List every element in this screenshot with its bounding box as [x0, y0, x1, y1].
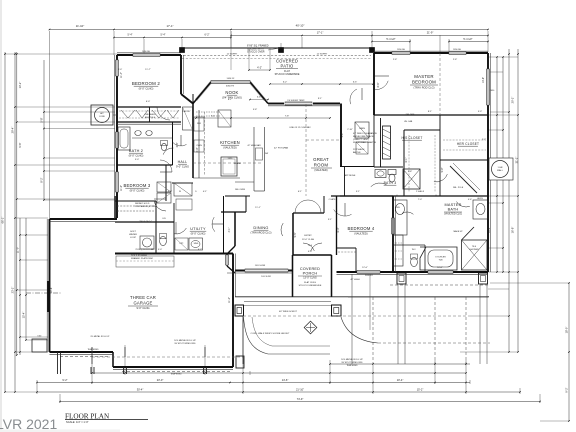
rear patio post extension lines	[351, 274, 353, 364]
svg-text:13'-0" CLNG: 13'-0" CLNG	[302, 239, 315, 241]
left vanity	[393, 200, 407, 235]
svg-text:6'-5": 6'-5"	[353, 82, 358, 84]
water heater on platform	[140, 236, 154, 249]
svg-text:42" HIGH: 42" HIGH	[350, 279, 360, 281]
svg-text:DBL DRS: DBL DRS	[406, 114, 415, 116]
svg-text:1 HR: 1 HR	[498, 167, 503, 169]
svg-text:23'-2": 23'-2"	[11, 287, 15, 294]
laundry closet boxes	[157, 182, 171, 192]
svg-text:7'-8": 7'-8"	[285, 116, 290, 118]
svg-text:TEMPERED: TEMPERED	[346, 365, 358, 367]
svg-text:ONE SHELF: ONE SHELF	[144, 114, 156, 116]
svg-text:13'-2": 13'-2"	[18, 82, 22, 89]
master suite interior block	[403, 130, 405, 196]
svg-text:HALL: HALL	[178, 160, 188, 164]
svg-text:6'-0": 6'-0"	[146, 101, 151, 103]
right dimension lines	[496, 57, 498, 272]
svg-text:31'-2": 31'-2"	[515, 157, 519, 164]
svg-text:(DIRECT VENT): (DIRECT VENT)	[353, 139, 369, 141]
svg-text:LINE OF 12 CLNG ABV: LINE OF 12 CLNG ABV	[289, 126, 311, 129]
svg-text:BATH 2: BATH 2	[129, 149, 143, 153]
svg-text:10'-4": 10'-4"	[397, 378, 404, 382]
svg-text:8'-1": 8'-1"	[228, 99, 233, 101]
svg-text:2650 SH: 2650 SH	[453, 49, 461, 51]
svg-text:TEMPERED: TEMPERED	[170, 374, 182, 376]
svg-text:DBL OVEN: DBL OVEN	[235, 189, 246, 191]
svg-text:4'-1": 4'-1"	[203, 191, 208, 193]
svg-text:3'-6": 3'-6"	[168, 191, 173, 193]
svg-text:5'X5': 5'X5'	[37, 336, 42, 338]
svg-text:(VAULTED): (VAULTED)	[223, 145, 236, 149]
bedroom2 block outline	[117, 54, 181, 56]
svg-text:8'0 METAL ROLL UP: 8'0 METAL ROLL UP	[91, 335, 110, 338]
garage door dashes	[60, 356, 110, 358]
svg-text:5'-0": 5'-0"	[158, 249, 163, 251]
exterior double-wall thin outlines	[374, 50, 488, 52]
svg-text:2 SHELF: 2 SHELF	[416, 191, 425, 193]
svg-text:11'-0": 11'-0"	[16, 247, 20, 253]
svg-text:18'-0": 18'-0"	[565, 327, 569, 334]
fireplace hatch	[383, 129, 391, 157]
svg-text:11'-4": 11'-4"	[120, 72, 123, 78]
svg-text:2'-2": 2'-2"	[482, 139, 487, 141]
patio soffit dashed	[176, 55, 371, 57]
svg-text:WATER: WATER	[129, 233, 137, 236]
svg-text:THREE CAR: THREE CAR	[130, 295, 156, 300]
bedroom3 closet	[115, 200, 156, 202]
master bath south wall	[393, 271, 488, 273]
svg-text:PANTRY: PANTRY	[183, 110, 192, 113]
svg-text:5'-0": 5'-0"	[135, 159, 140, 161]
svg-text:9'-0" CLNG: 9'-0" CLNG	[136, 306, 149, 310]
svg-text:13'-0" CLNG: 13'-0" CLNG	[303, 277, 317, 280]
svg-text:5'-8": 5'-8"	[253, 109, 258, 111]
svg-text:5050 SH: 5050 SH	[142, 51, 150, 53]
svg-text:6'-2": 6'-2"	[198, 249, 203, 251]
left dimension lines	[4, 52, 6, 392]
svg-text:16'-8": 16'-8"	[511, 227, 515, 234]
svg-text:2X10 @ 16 O.C. ABV: 2X10 @ 16 O.C. ABV	[135, 248, 155, 251]
svg-text:BEDROOM 2: BEDROOM 2	[132, 81, 161, 86]
svg-text:5030 XO: 5030 XO	[365, 275, 373, 277]
svg-text:5'-8": 5'-8"	[408, 171, 413, 173]
svg-text:16'0 METAL ROLL UP: 16'0 METAL ROLL UP	[341, 358, 363, 361]
bottom extension verticals	[36, 380, 38, 394]
svg-text:BEDROOM 4: BEDROOM 4	[348, 226, 375, 231]
svg-text:5'-4 1/2": 5'-4 1/2"	[463, 38, 472, 41]
kitchen dim line y118	[196, 117, 330, 119]
svg-text:3'-1": 3'-1"	[328, 219, 333, 221]
svg-text:5050 FX: 5050 FX	[227, 78, 235, 80]
svg-text:MASTER: MASTER	[444, 203, 461, 207]
svg-text:LINEN: LINEN	[359, 128, 365, 130]
svg-text:30'-4": 30'-4"	[137, 388, 144, 392]
svg-text:LOOP: LOOP	[130, 237, 137, 239]
svg-text:12' SOFFIT: 12' SOFFIT	[317, 54, 328, 56]
svg-text:11'-10": 11'-10"	[76, 24, 84, 28]
svg-text:METAL FIRE PLACE: METAL FIRE PLACE	[353, 135, 374, 138]
svg-text:16'0 X 8'0 HIGH: 16'0 X 8'0 HIGH	[131, 255, 147, 257]
covered patio roof line top	[182, 47, 374, 49]
svg-text:5'-4 1/2": 5'-4 1/2"	[386, 38, 395, 41]
svg-text:NOOK: NOOK	[225, 90, 238, 95]
svg-text:DBL. POLE: DBL. POLE	[453, 187, 464, 189]
svg-text:(9'-0" CLNG): (9'-0" CLNG)	[191, 231, 206, 235]
svg-text:9'0 SLIDER TEMP.: 9'0 SLIDER TEMP.	[287, 100, 305, 102]
svg-text:6'-1": 6'-1"	[405, 157, 408, 162]
svg-text:9'-6": 9'-6"	[18, 142, 22, 147]
svg-text:5'-8": 5'-8"	[40, 117, 44, 122]
svg-text:9'-1": 9'-1"	[318, 98, 323, 100]
pantry cabinet	[183, 107, 193, 130]
svg-text:ENTRY: ENTRY	[304, 235, 312, 237]
svg-text:9'-2": 9'-2"	[565, 387, 569, 392]
svg-text:4'-1": 4'-1"	[228, 227, 231, 232]
top dimension line overall	[50, 29, 489, 31]
svg-text:(TRAY ROD CLG): (TRAY ROD CLG)	[414, 86, 435, 90]
svg-text:TUB: TUB	[439, 260, 444, 262]
door arcs	[157, 107, 170, 120]
wc compartment	[393, 244, 425, 246]
svg-text:FRAMED PLATFORM: FRAMED PLATFORM	[131, 257, 153, 260]
svg-text:2'-10": 2'-10"	[347, 129, 353, 131]
svg-text:ABOVE: ABOVE	[353, 151, 361, 154]
svg-text:17'-1": 17'-1"	[166, 24, 173, 28]
kitchen upper cab dash	[204, 112, 206, 176]
svg-text:TILE: TILE	[308, 245, 313, 247]
svg-text:74'-9": 74'-9"	[297, 397, 304, 401]
svg-text:5'-4": 5'-4"	[161, 34, 166, 37]
linen tower	[393, 235, 403, 266]
svg-text:17'-1": 17'-1"	[317, 31, 324, 35]
patio inner dim line	[249, 69, 270, 71]
svg-text:2X6 @ 16 O.C.: 2X6 @ 16 O.C.	[139, 221, 153, 223]
svg-text:6'-2": 6'-2"	[283, 82, 288, 84]
bottom dimension lines	[92, 372, 466, 374]
his closet shelves	[408, 135, 410, 192]
svg-text:COND: COND	[99, 116, 105, 118]
svg-text:GARAGE: GARAGE	[133, 301, 152, 306]
svg-text:POST ABOVE (4 TYPE): POST ABOVE (4 TYPE)	[135, 205, 157, 208]
patio slab lines	[390, 284, 488, 286]
svg-text:LIN. CAB: LIN. CAB	[404, 120, 413, 123]
bath3	[374, 166, 403, 168]
svg-text:BATH 3: BATH 3	[384, 181, 397, 185]
svg-text:ROOM: ROOM	[314, 163, 329, 168]
svg-text:3'-0": 3'-0"	[118, 69, 123, 71]
extension verticals top	[49, 31, 51, 218]
svg-text:12' SOFFIT: 12' SOFFIT	[227, 54, 238, 56]
bedroom4	[336, 196, 338, 255]
svg-text:DINING: DINING	[253, 225, 268, 230]
svg-text:MAKE UP: MAKE UP	[453, 230, 463, 233]
garage platform dashed	[116, 256, 174, 267]
svg-text:PATIO: PATIO	[281, 64, 294, 69]
svg-text:8'-1": 8'-1"	[428, 111, 433, 113]
svg-text:CONC. WALK W/KEY SCORE LAYOUT: CONC. WALK W/KEY SCORE LAYOUT	[251, 332, 291, 335]
svg-text:11'-7": 11'-7"	[145, 69, 151, 71]
svg-text:7'-1": 7'-1"	[211, 116, 216, 118]
svg-text:15'-2": 15'-2"	[417, 388, 424, 392]
utility block	[115, 221, 174, 223]
garage	[49, 219, 51, 352]
great room east wall	[340, 104, 342, 167]
patio dim line y84	[270, 83, 373, 85]
third dim line left	[114, 37, 231, 39]
nook bay	[196, 81, 212, 100]
side stoop	[32, 339, 47, 352]
svg-text:(VAULTED CLG): (VAULTED CLG)	[444, 213, 462, 216]
wall detail circle	[489, 158, 513, 180]
svg-text:14'-6": 14'-6"	[282, 378, 289, 382]
svg-text:(9'-0" CLNG): (9'-0" CLNG)	[130, 188, 145, 192]
svg-text:ISLAND: ISLAND	[234, 162, 242, 165]
svg-text:3'-8": 3'-8"	[176, 142, 179, 147]
svg-text:KITCHEN: KITCHEN	[220, 140, 240, 145]
right ext horizontals	[489, 56, 518, 58]
svg-text:8'-6": 8'-6"	[377, 82, 380, 87]
svg-text:A/C: A/C	[100, 112, 104, 115]
svg-text:STUCCO UNDERSIDE: STUCCO UNDERSIDE	[299, 285, 322, 287]
svg-text:4'-0": 4'-0"	[308, 251, 313, 253]
entry / foyer walls	[292, 213, 294, 255]
bedroom3 closet	[117, 205, 154, 207]
svg-text:21'-9": 21'-9"	[427, 31, 434, 35]
svg-text:40'-10": 40'-10"	[296, 24, 305, 28]
svg-text:WALL: WALL	[497, 169, 504, 172]
svg-text:42" HIGH BAR: 42" HIGH BAR	[247, 144, 261, 147]
svg-text:6'-0": 6'-0"	[337, 227, 340, 232]
porch columns	[235, 305, 244, 316]
svg-text:16'0 METAL ROLL UP: 16'0 METAL ROLL UP	[174, 339, 196, 342]
svg-text:SEISMIC HOLD: SEISMIC HOLD	[135, 203, 150, 205]
svg-text:4'-6": 4'-6"	[468, 199, 473, 201]
svg-text:11'-1": 11'-1"	[255, 207, 261, 209]
svg-text:COVERED: COVERED	[300, 267, 320, 271]
right vanity	[473, 200, 488, 219]
svg-text:5'-2": 5'-2"	[341, 132, 344, 137]
svg-text:2'-8": 2'-8"	[393, 59, 398, 61]
svg-text:4'-2": 4'-2"	[257, 67, 262, 70]
svg-text:(9'-0" CLNG): (9'-0" CLNG)	[129, 153, 144, 157]
entry door arcs	[303, 243, 314, 251]
svg-text:48" WIDE SOFFIT: 48" WIDE SOFFIT	[279, 311, 298, 313]
dining bay	[234, 212, 236, 246]
closet shelf lines	[119, 110, 179, 112]
svg-text:HER CLOSET: HER CLOSET	[457, 142, 479, 146]
svg-text:SHOWER: SHOWER	[470, 249, 480, 251]
svg-text:5'-9": 5'-9"	[441, 167, 444, 172]
svg-text:5'-5": 5'-5"	[294, 232, 297, 237]
svg-text:LVR 2021: LVR 2021	[0, 416, 57, 432]
svg-text:10'-2": 10'-2"	[488, 227, 491, 233]
svg-text:5'-4": 5'-4"	[128, 34, 133, 37]
svg-text:5050 FX: 5050 FX	[226, 86, 235, 88]
master bedroom block	[374, 52, 488, 54]
svg-text:DW: DW	[265, 153, 268, 155]
svg-text:13'-6": 13'-6"	[482, 77, 485, 83]
svg-text:66'-2": 66'-2"	[1, 217, 5, 224]
svg-text:GREAT: GREAT	[313, 157, 329, 162]
closet bifold doors	[121, 110, 148, 118]
svg-text:2'-0": 2'-0"	[196, 147, 199, 152]
svg-text:42" ZERO CLEARANCE: 42" ZERO CLEARANCE	[353, 132, 377, 135]
svg-text:2'-8": 2'-8"	[453, 59, 458, 61]
svg-text:TILE: TILE	[472, 246, 477, 248]
svg-text:2650 SH: 2650 SH	[397, 49, 405, 51]
kitchen counters	[198, 110, 200, 178]
windows	[133, 53, 160, 56]
svg-text:(VAULTED): (VAULTED)	[314, 168, 327, 172]
svg-text:11'-0": 11'-0"	[120, 185, 123, 191]
svg-text:23'-0": 23'-0"	[157, 378, 164, 382]
svg-text:21'-10": 21'-10"	[296, 388, 304, 392]
svg-text:19'-8": 19'-8"	[50, 287, 53, 293]
svg-text:ART NICHE: ART NICHE	[345, 174, 356, 177]
svg-text:(TRAY/ROD CLG): (TRAY/ROD CLG)	[251, 230, 272, 234]
svg-text:3'-6": 3'-6"	[257, 97, 262, 99]
fireplace	[383, 126, 391, 159]
utility fixtures	[175, 238, 188, 250]
svg-text:42" POT&PAN: 42" POT&PAN	[274, 147, 289, 150]
svg-text:BATH: BATH	[448, 208, 459, 212]
second dim line right	[231, 35, 488, 37]
svg-text:10'-0": 10'-0"	[437, 267, 443, 269]
svg-text:MASTER: MASTER	[414, 74, 434, 79]
bath2 fixtures	[118, 127, 130, 150]
svg-text:UTILITY: UTILITY	[190, 227, 206, 231]
svg-text:OVEN: OVEN	[196, 145, 202, 147]
svg-text:PORCH: PORCH	[303, 272, 318, 276]
svg-text:HERS: HERS	[477, 198, 483, 200]
svg-text:OPT.: OPT.	[179, 243, 184, 245]
svg-text:6'-2": 6'-2"	[205, 34, 210, 37]
linen mid gallery	[355, 122, 369, 138]
powder toilet	[160, 236, 167, 245]
svg-text:STUCCO OVER: STUCCO OVER	[247, 51, 265, 54]
svg-text:SCALE: 1/4" = 1'-0": SCALE: 1/4" = 1'-0"	[66, 420, 89, 424]
window dims master	[372, 41, 410, 43]
gallery / fireplace zone	[373, 115, 375, 167]
svg-text:BEDROOM 3: BEDROOM 3	[124, 183, 151, 188]
svg-text:9'-0" CLNG: 9'-0" CLNG	[176, 164, 189, 168]
interior: bedroom wing	[117, 106, 181, 108]
svg-text:9'-2": 9'-2"	[62, 378, 67, 382]
garage slab dashed	[92, 356, 243, 358]
svg-text:STUCCO UNDERSIDE: STUCCO UNDERSIDE	[275, 73, 300, 76]
svg-text:W/ SPLIT WINDOWS: W/ SPLIT WINDOWS	[342, 362, 364, 364]
svg-text:11'-2": 11'-2"	[228, 297, 231, 303]
svg-text:SINK: SINK	[194, 243, 199, 245]
svg-text:5'-1": 5'-1"	[356, 191, 361, 193]
svg-text:TEMPERED: TEMPERED	[87, 349, 99, 351]
svg-text:COATS: COATS	[329, 198, 336, 201]
svg-text:SOFT: SOFT	[130, 231, 136, 233]
svg-text:W/ SPLIT WINDOWS: W/ SPLIT WINDOWS	[175, 343, 197, 345]
svg-text:POTSHELF: POTSHELF	[353, 149, 365, 151]
svg-text:15'-4": 15'-4"	[22, 312, 26, 319]
svg-text:7'-0": 7'-0"	[418, 199, 423, 201]
her closet shelves	[443, 139, 486, 141]
left ext horizontals	[5, 53, 117, 55]
svg-text:8'-2": 8'-2"	[40, 177, 44, 182]
svg-text:W/ DRYWALL MANTLE: W/ DRYWALL MANTLE	[353, 141, 377, 144]
kitchen west wall	[192, 104, 194, 179]
svg-text:FLAT CLNG: FLAT CLNG	[304, 281, 316, 284]
svg-text:AND POLE: AND POLE	[145, 116, 156, 119]
garage door posts	[57, 352, 59, 374]
tub	[420, 247, 457, 270]
ceiling break dashed	[439, 53, 441, 115]
svg-text:W.C.: W.C.	[412, 249, 417, 251]
svg-text:12'-0": 12'-0"	[362, 267, 368, 269]
svg-text:10'0 SLDR: 10'0 SLDR	[255, 265, 266, 267]
covered porch	[293, 254, 332, 256]
svg-text:6'-1": 6'-1"	[298, 191, 303, 193]
walkway curves	[244, 317, 331, 354]
patio pilasters	[397, 273, 406, 284]
svg-text:20'-2": 20'-2"	[511, 97, 515, 104]
walk diamond	[304, 321, 317, 334]
svg-text:29'-4": 29'-4"	[11, 127, 15, 134]
tile shower	[462, 240, 488, 270]
svg-text:LIN: LIN	[162, 218, 166, 220]
svg-text:10'0 SLDR: 10'0 SLDR	[261, 276, 271, 278]
svg-text:W: W	[179, 191, 181, 193]
kitchen NE cabinet	[218, 110, 231, 127]
svg-text:(9'-0" CLNG): (9'-0" CLNG)	[139, 86, 154, 90]
svg-text:(VAULTED): (VAULTED)	[354, 231, 367, 235]
svg-text:BEDROOM: BEDROOM	[412, 80, 436, 85]
section cut dashdot	[26, 292, 61, 294]
svg-text:HIS CLOSET: HIS CLOSET	[402, 136, 423, 140]
svg-text:5'-3": 5'-3"	[478, 111, 483, 113]
entry arch dashed	[295, 200, 321, 213]
AC condenser unit	[91, 105, 113, 125]
patio columns	[180, 48, 185, 53]
svg-text:6' KOHLER: 6' KOHLER	[435, 257, 446, 259]
